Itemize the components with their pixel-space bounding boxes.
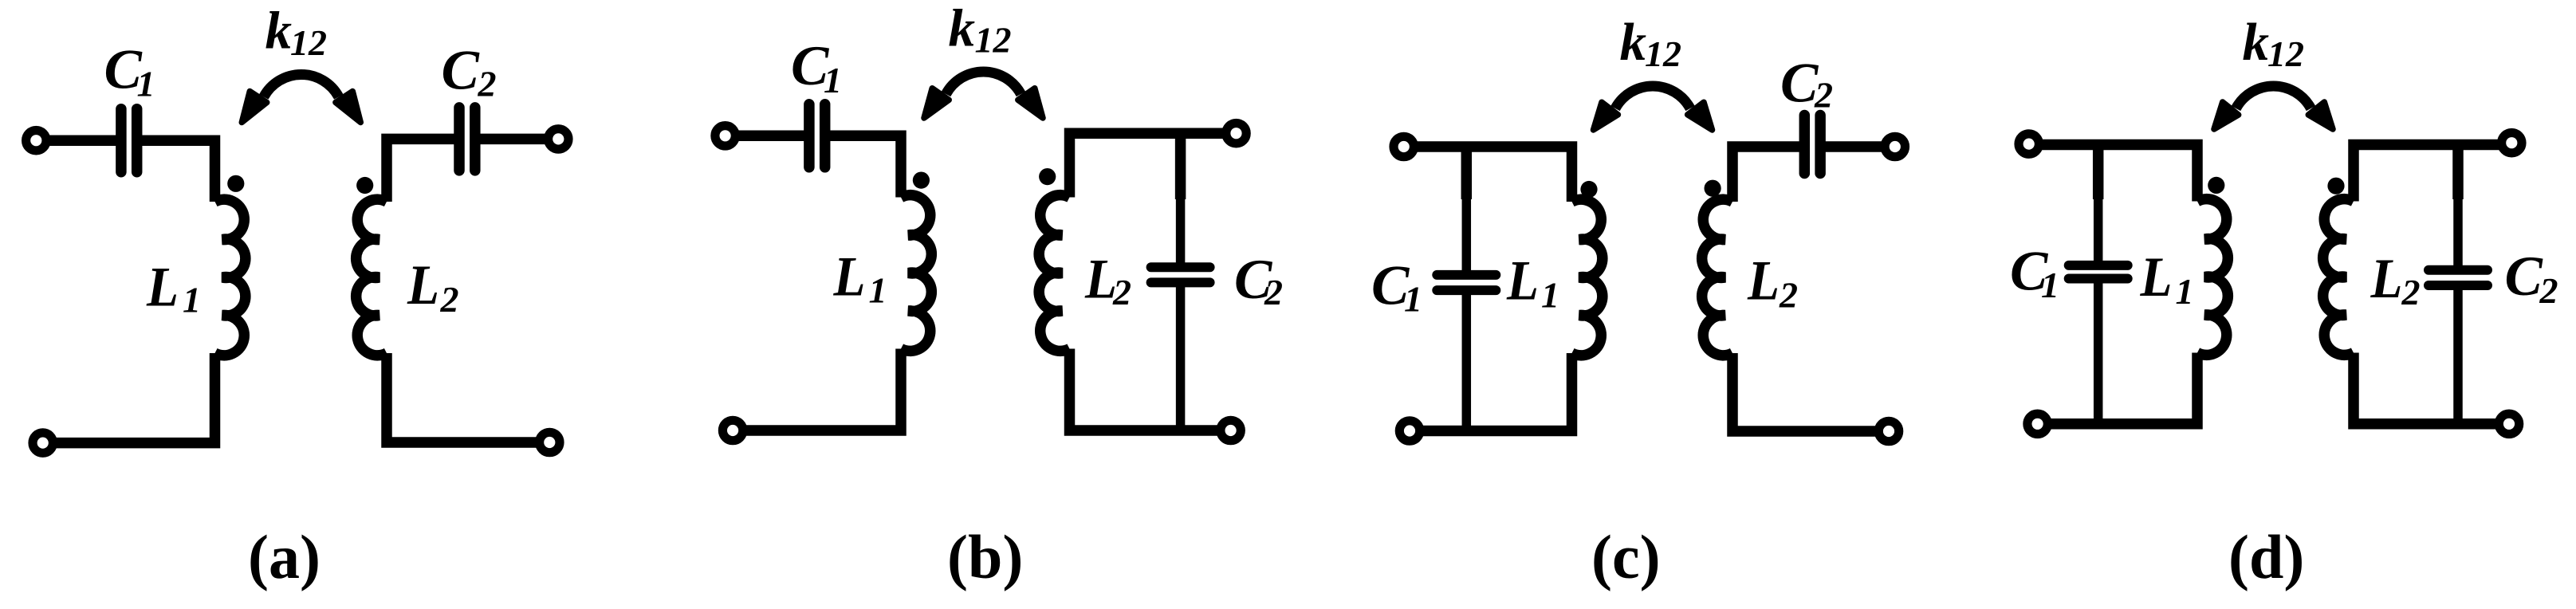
svg-text:1: 1 <box>1404 279 1422 320</box>
svg-text:k: k <box>2243 13 2270 72</box>
wire: (d) C1 branch upper <box>2093 145 2104 200</box>
inductor L1 (d) <box>2197 199 2228 356</box>
arrow head right (a) <box>336 92 360 123</box>
terminal: (d) upper-right port <box>2502 133 2522 153</box>
terminal: (d) lower-right port <box>2499 414 2519 434</box>
svg-text:C: C <box>1780 53 1819 115</box>
arrow head left (c) <box>1594 102 1618 130</box>
wire: (c) L1 bottom to lower-left terminal <box>1410 353 1572 431</box>
svg-text:L: L <box>146 257 179 319</box>
wire: (c) L2 top lead to C2 <box>1732 147 1804 202</box>
svg-text:L: L <box>407 254 439 316</box>
wire: (d) C1 branch lower (thin) <box>2094 279 2103 424</box>
svg-text:2: 2 <box>2539 270 2558 311</box>
inductor L1 (a) <box>215 199 246 356</box>
capacitor C1 (b) <box>809 104 825 167</box>
svg-text:12: 12 <box>1645 33 1681 74</box>
svg-text:(a): (a) <box>248 522 321 591</box>
wire: (a) L2 top lead to C2 <box>387 139 459 202</box>
wire: (d) L2 bottom to lower-right terminal <box>2354 353 2509 424</box>
arrow: coupling arc k12 (c) <box>1615 86 1690 108</box>
terminal: (a) lower-right port <box>540 432 560 452</box>
svg-text:12: 12 <box>2267 33 2304 74</box>
dot: L1 polarity (b) <box>913 172 930 189</box>
svg-text:2: 2 <box>440 279 459 320</box>
wire: (a) left input from terminal to C1 <box>36 135 121 146</box>
wire: (c) C2 to upper-right terminal <box>1820 141 1895 152</box>
svg-text:(b): (b) <box>947 522 1023 591</box>
terminal: (b) lower-left port <box>722 420 742 440</box>
dot: L1 polarity (c) <box>1580 181 1597 198</box>
svg-text:L: L <box>2140 246 2173 308</box>
arrow head right (c) <box>1688 102 1713 130</box>
inductor L1 (b) <box>901 195 931 352</box>
wire: (d) L2 top lead across to upper-right terminal <box>2354 145 2511 202</box>
wire: (c) C1 branch upper <box>1461 147 1473 199</box>
arrow head left (b) <box>924 88 949 118</box>
inductor L2 (a) <box>356 199 387 356</box>
terminal: (c) lower-right port <box>1878 421 1898 441</box>
wire: (b) C2 branch lower (thin) <box>1176 283 1186 430</box>
svg-text:L: L <box>2370 248 2403 310</box>
svg-text:1: 1 <box>869 270 887 311</box>
svg-text:1: 1 <box>2041 265 2059 305</box>
terminal: (b) upper-right port <box>1226 124 1246 143</box>
terminal: (b) upper-left port <box>715 126 735 146</box>
capacitor C2 (a) <box>459 108 475 171</box>
arrow head right (b) <box>1018 88 1043 118</box>
wire: (b) left input from terminal to C1 <box>726 131 809 142</box>
arrow head right (d) <box>2308 102 2333 129</box>
dot: L2 polarity (d) <box>2327 178 2344 194</box>
svg-text:L: L <box>1506 250 1539 312</box>
wire: (c) C1 branch lower (thin) <box>1462 290 1472 430</box>
svg-text:k: k <box>949 0 976 58</box>
wire: (a) L2 bottom to lower-right terminal <box>387 353 549 442</box>
svg-text:(d): (d) <box>2228 522 2304 591</box>
inductor L1 (c) <box>1572 199 1603 356</box>
svg-text:2: 2 <box>2401 272 2421 312</box>
svg-text:L: L <box>1747 250 1780 312</box>
wire: (c) left input from terminal to L1 top <box>1404 147 1572 202</box>
capacitor C1 (a) <box>121 109 137 172</box>
wire: (a) C2 to upper-right terminal <box>475 134 559 145</box>
wire: (c) C1 branch to top plate (thin) <box>1462 198 1472 275</box>
svg-text:2: 2 <box>1779 275 1798 316</box>
wire: (d) C1 branch to top plate (thin) <box>2094 198 2103 265</box>
wire: (b) C2 branch to top plate (thin) <box>1176 198 1186 267</box>
wire: (d) C2 branch upper <box>2452 145 2464 200</box>
svg-text:12: 12 <box>290 22 327 63</box>
svg-text:C: C <box>442 40 481 102</box>
dot: L2 polarity (a) <box>356 177 373 194</box>
wire: (b) C1 to L1 top lead <box>825 136 901 197</box>
terminal: (a) upper-left port <box>26 131 46 151</box>
wire: (d) C2 branch to top plate (thin) <box>2453 198 2463 269</box>
wire: (d) L1 bottom to lower-left terminal <box>2038 353 2197 424</box>
wire: (b) L2 bottom to lower-right terminal <box>1070 349 1231 431</box>
arrow: coupling arc k12 (b) <box>946 72 1021 94</box>
wire: (b) C2 branch upper <box>1175 133 1186 199</box>
inductor L2 (b) <box>1039 195 1069 352</box>
dot: L1 polarity (a) <box>227 175 244 192</box>
inductor L2 (d) <box>2323 199 2354 356</box>
svg-text:1: 1 <box>183 280 201 320</box>
svg-text:1: 1 <box>1541 275 1559 316</box>
svg-text:C: C <box>2505 246 2544 308</box>
dot: L2 polarity (c) <box>1705 180 1721 197</box>
capacitor C1 (c) <box>1437 275 1496 290</box>
wire: (b) L1 bottom to lower-left terminal <box>733 349 901 431</box>
svg-text:12: 12 <box>975 20 1012 61</box>
terminal: (c) lower-left port <box>1399 421 1419 441</box>
terminal: (a) upper-right port <box>549 129 568 149</box>
terminal: (c) upper-left port <box>1394 136 1414 156</box>
arrow: coupling arc k12 (a) <box>264 74 339 96</box>
capacitor C2 (d) <box>2429 270 2488 285</box>
svg-text:L: L <box>833 246 866 308</box>
svg-text:1: 1 <box>2176 271 2194 312</box>
svg-text:1: 1 <box>824 60 842 100</box>
terminal: (c) upper-right port <box>1885 136 1905 156</box>
svg-text:2: 2 <box>1264 272 1283 312</box>
wire: (d) C2 branch lower (thin) <box>2453 286 2463 424</box>
arrow head left (d) <box>2214 102 2239 129</box>
dot: L2 polarity (b) <box>1039 168 1056 185</box>
wire: (a) L1 bottom to lower-left terminal <box>43 353 215 443</box>
dot: L1 polarity (d) <box>2208 177 2224 194</box>
wire: (a) C1 to L1 top lead <box>137 140 215 202</box>
terminal: (a) lower-left port <box>33 433 53 453</box>
arrow: coupling arc k12 (d) <box>2236 86 2311 108</box>
terminal: (d) lower-left port <box>2027 414 2047 434</box>
svg-text:2: 2 <box>1112 272 1131 312</box>
capacitor C1 (d) <box>2069 265 2128 279</box>
svg-text:L: L <box>1084 249 1117 311</box>
inductor L2 (c) <box>1702 199 1732 356</box>
terminal: (d) upper-left port <box>2019 134 2039 154</box>
wire: (b) L2 top lead across to upper-right terminal <box>1070 133 1237 197</box>
svg-text:2: 2 <box>478 64 497 104</box>
svg-text:k: k <box>1620 13 1647 72</box>
arrow head left (a) <box>242 92 266 123</box>
svg-text:2: 2 <box>1814 75 1833 116</box>
svg-text:1: 1 <box>137 64 155 104</box>
wire: (d) left input from terminal to L1 top <box>2029 145 2197 202</box>
svg-text:(c): (c) <box>1591 522 1661 591</box>
svg-text:k: k <box>265 2 293 61</box>
terminal: (b) lower-right port <box>1221 420 1241 440</box>
wire: (c) L2 bottom to lower-right terminal <box>1732 353 1889 431</box>
capacitor C2 (c) <box>1804 116 1820 174</box>
capacitor C2 (b) <box>1151 267 1210 282</box>
